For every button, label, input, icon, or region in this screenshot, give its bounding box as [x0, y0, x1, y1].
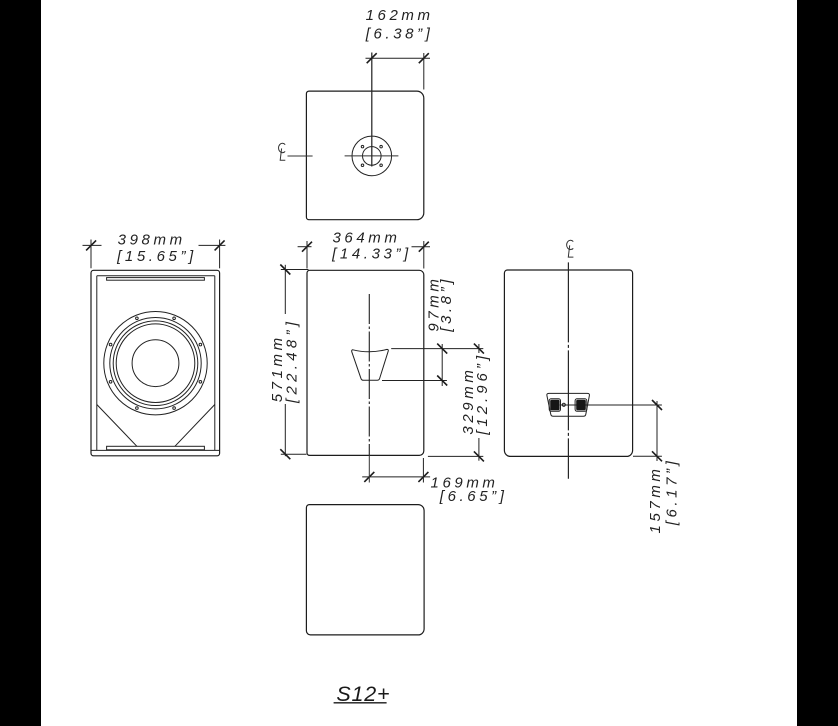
- dimension 398mm: dim line left segment: [83, 244, 102, 246]
- dimension 97mm: bottom tick: [437, 376, 447, 386]
- dimension 97mm: bottom extension line: [382, 380, 447, 382]
- dimension 162mm: right extension line: [423, 53, 425, 90]
- speakon connector left body: [550, 400, 559, 411]
- pole cup inner circle: [363, 147, 382, 166]
- dimension 169mm: dim line: [362, 476, 430, 478]
- dimension 571mm: top tick: [280, 265, 290, 275]
- bottom view cabinet outline: [306, 505, 424, 635]
- svg-text:162mm: 162mm: [366, 7, 434, 24]
- dimension 97mm: top tick: [437, 344, 447, 354]
- dimension 364mm: right extension line: [423, 241, 425, 269]
- svg-text:157mm: 157mm: [647, 465, 664, 533]
- connector plate trapezoid: [547, 393, 590, 416]
- dimension 157mm: top tick: [652, 400, 662, 410]
- dimension 97mm: dim line: [441, 344, 443, 386]
- dimension 162mm: right tick: [419, 53, 429, 63]
- back view cabinet outline: [504, 270, 632, 456]
- dimension 398mm: right tick: [215, 240, 225, 250]
- dimension 364mm: dim line left segment: [298, 246, 312, 248]
- woofer rim inner circle: [110, 318, 201, 409]
- svg-text:[3.8”]: [3.8”]: [438, 276, 455, 333]
- woofer dust cap circle: [132, 340, 179, 387]
- svg-text:[15.65”]: [15.65”]: [116, 248, 197, 265]
- dimension 364mm: left extension line: [306, 241, 308, 269]
- woofer outer rim circle: [104, 312, 207, 415]
- dimension 162mm: left tick: [367, 53, 377, 63]
- top view CL centreline symbol: [279, 143, 286, 160]
- woofer surround circle: [113, 321, 198, 406]
- dimension 169mm: right tick: [418, 472, 428, 482]
- dimension 97mm: top extension line (shared with 329mm): [391, 348, 483, 350]
- back view CL centreline symbol: [567, 240, 574, 257]
- dimension 398mm: dim line right segment: [199, 244, 226, 246]
- svg-text:[12.96”]: [12.96”]: [474, 352, 491, 436]
- dimension 162mm: dim line: [366, 57, 431, 59]
- dimension 329mm: bottom extension line: [428, 455, 483, 457]
- right black border bar: [797, 0, 838, 726]
- back view vertical centerline: [567, 262, 569, 478]
- dimension 398mm: left tick: [86, 240, 96, 250]
- front view bottom grille strip: [107, 446, 205, 450]
- svg-text:364mm: 364mm: [332, 230, 400, 247]
- pole cup screw hole top-right: [380, 145, 383, 148]
- dimension 398mm: left extension line: [90, 240, 92, 269]
- dimension 398mm: right extension line: [219, 240, 221, 269]
- front view top grille strip: [107, 278, 205, 281]
- woofer cone circle: [116, 324, 195, 403]
- svg-text:[6.17”]: [6.17”]: [663, 458, 680, 527]
- front view inner right wall: [214, 276, 216, 451]
- top view vertical centerline / extension: [371, 53, 373, 167]
- svg-text:398mm: 398mm: [118, 232, 186, 249]
- front view right brace diagonal: [175, 405, 215, 447]
- top view cabinet outline: [306, 91, 423, 220]
- front view inner left wall: [96, 276, 98, 451]
- dimension 329mm: dim line bottom segment: [478, 438, 480, 461]
- left black border bar: [0, 0, 41, 726]
- front view inner bottom edge: [92, 449, 220, 451]
- dimension 157mm: bottom tick: [652, 451, 662, 461]
- dimension 329mm: dim line top segment: [478, 344, 480, 353]
- dimension 329mm: top tick: [474, 344, 484, 354]
- title underline: [334, 702, 387, 704]
- top view centerline leader from CL symbol: [288, 155, 313, 157]
- dimension 571mm: bottom extension line: [281, 453, 307, 455]
- dimension 571mm: top extension line: [281, 269, 309, 271]
- dimension 571mm: dim line bottom segment: [284, 404, 286, 456]
- dimension 571mm: dim line top segment: [284, 265, 286, 314]
- front view cabinet outline: [91, 270, 220, 456]
- front view left brace diagonal: [97, 405, 137, 447]
- handle cutout: [352, 349, 389, 380]
- top view horizontal centerline: [345, 155, 399, 157]
- dimension 157mm: bottom extension line: [633, 455, 662, 457]
- svg-text:[6.65”]: [6.65”]: [439, 488, 508, 505]
- svg-text:[14.33”]: [14.33”]: [331, 245, 412, 262]
- extension line through plate (157mm top extension): [560, 404, 662, 406]
- front view inner top edge: [97, 275, 215, 277]
- pole cup outer circle: [352, 136, 392, 176]
- pole cup screw hole bottom-left: [361, 164, 364, 167]
- dimension 157mm: dim line: [656, 401, 658, 461]
- dimension 169mm: left tick: [364, 472, 374, 482]
- dimension 329mm: bottom tick: [474, 451, 484, 461]
- dimension 169mm: right extension line: [422, 458, 424, 483]
- speakon connector right body: [576, 400, 586, 411]
- dimension 169mm: centerline extension: [368, 455, 370, 482]
- svg-text:[6.38”]: [6.38”]: [365, 26, 434, 43]
- side view cabinet outline: [307, 270, 424, 455]
- small center hole on plate: [562, 403, 565, 406]
- dimension 364mm: left tick: [302, 242, 312, 252]
- speakon connector right outline: [575, 399, 587, 412]
- woofer screws (8): [109, 317, 201, 409]
- dimension 571mm: bottom tick: [280, 449, 290, 459]
- svg-text:[22.48”]: [22.48”]: [283, 318, 300, 404]
- pole cup screw hole bottom-right: [380, 164, 383, 167]
- speakon connector left outline: [549, 399, 560, 412]
- dimension 364mm: dim line right segment: [412, 246, 431, 248]
- dimension 364mm: right tick: [419, 242, 429, 252]
- side view vertical centerline (dash-dot): [368, 294, 370, 455]
- pole cup screw hole top-left: [361, 145, 364, 148]
